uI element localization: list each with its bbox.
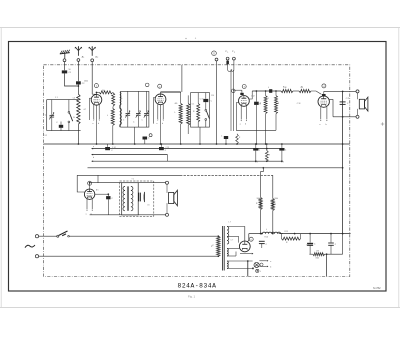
inductor L1 (antenna coil) xyxy=(73,85,80,145)
wire wavetrap top xyxy=(47,99,79,101)
trimmer capacitor C7 xyxy=(144,91,149,127)
inductor T2 rectifier filament xyxy=(227,249,228,257)
capacitor C10 xyxy=(340,102,349,105)
label G (circled) xyxy=(212,51,217,56)
speaker driver LS2 xyxy=(139,192,145,202)
wire V5 plate xyxy=(95,193,109,195)
capacitor C12 xyxy=(105,144,113,152)
grid cap V4 xyxy=(322,91,326,96)
svg-text:G: G xyxy=(213,53,215,55)
wire filter ground xyxy=(326,254,328,276)
svg-text:1: 1 xyxy=(83,57,84,59)
wire ext leads xyxy=(166,184,168,213)
svg-text:S 2: S 2 xyxy=(45,135,48,137)
wire R5-R6 link xyxy=(293,90,299,92)
loudspeaker LS3 xyxy=(169,190,178,206)
wire heater ground xyxy=(247,261,249,277)
tube V3 label xyxy=(242,85,246,89)
svg-text:L 7: L 7 xyxy=(229,222,231,224)
choke L6 xyxy=(268,87,272,93)
wire wavetrap bottom xyxy=(47,130,81,132)
resistor R10 (parallel) xyxy=(281,234,301,244)
trimmer capacitor C5 xyxy=(125,91,130,127)
wire bus 3 xyxy=(92,154,168,161)
wire V2 plate lead xyxy=(161,92,181,94)
inductor L3b xyxy=(120,97,123,127)
pin labels V2 xyxy=(156,123,163,125)
terminal P2 xyxy=(233,57,236,60)
svg-text:2: 2 xyxy=(97,57,98,59)
wire heater top xyxy=(227,260,253,262)
resistor R1 (grid leak) xyxy=(97,91,113,95)
svg-text:Fig. 1: Fig. 1 xyxy=(188,295,195,299)
detector section box xyxy=(191,93,210,128)
svg-text:b: b xyxy=(98,123,99,125)
wire grid line to terminal xyxy=(324,90,356,92)
inductor L3a xyxy=(120,92,121,105)
resistor R8 (feed) xyxy=(256,168,263,234)
arrow heater b xyxy=(259,266,271,269)
tube V4 label xyxy=(322,84,326,88)
wire V3 cathode return xyxy=(236,103,276,131)
wire earth lead xyxy=(64,62,66,71)
svg-text:L: L xyxy=(107,115,108,117)
antenna A1 xyxy=(75,46,83,56)
inductor L2b xyxy=(107,106,114,144)
svg-text:4-7: 4-7 xyxy=(84,109,87,111)
svg-text:1 W: 1 W xyxy=(316,251,319,253)
trimmer capacitor C6 xyxy=(133,91,141,127)
fuse plug xyxy=(226,61,229,65)
terminal A2 xyxy=(91,59,94,62)
terminal ext bottom xyxy=(166,213,169,216)
inductor L7 (choke) xyxy=(249,229,281,234)
capacitor C16 xyxy=(106,194,113,215)
svg-text:C 24: C 24 xyxy=(112,147,116,149)
svg-text:T 1: T 1 xyxy=(132,179,134,181)
resistor R9 (feed) xyxy=(271,175,276,233)
capacitor C15 xyxy=(279,144,287,161)
filament tap arrow xyxy=(240,253,253,255)
wire antenna A2 lead xyxy=(92,62,96,94)
capacitor C9 xyxy=(254,91,261,144)
wire rail detector-output xyxy=(252,90,281,92)
wire filter bottom xyxy=(309,253,342,255)
wire LS1 leads xyxy=(357,93,359,115)
capacitor C13 xyxy=(159,144,167,152)
switch S3 xyxy=(205,102,209,127)
wire V1 grid xyxy=(89,98,91,120)
capacitor C2 xyxy=(76,81,85,85)
svg-text:C 12: C 12 xyxy=(251,96,255,98)
bus labels xyxy=(93,146,94,159)
svg-text:824A-834A: 824A-834A xyxy=(178,282,217,289)
svg-text:L: L xyxy=(268,87,269,89)
capacitor C11 xyxy=(143,134,153,144)
tube V1 (frequency changer) xyxy=(91,95,102,106)
wire wavetrap left xyxy=(46,100,48,131)
loudspeaker LS1 xyxy=(359,97,368,111)
wire pickup G xyxy=(216,61,218,144)
svg-text:465: 465 xyxy=(175,103,178,105)
wire V5 pins xyxy=(86,199,93,216)
transformer T2 core xyxy=(223,226,225,271)
inductor L2a xyxy=(112,92,115,106)
wire B+ riser xyxy=(342,91,344,233)
transformer T1 box xyxy=(122,183,139,215)
terminal AC1 xyxy=(35,235,38,238)
wire AC neutral xyxy=(39,255,219,257)
wire bus 4 xyxy=(92,160,282,162)
label P1 xyxy=(225,51,228,54)
terminal AC2 xyxy=(35,255,38,258)
wire V3 pins xyxy=(240,106,247,126)
wire V5 top xyxy=(90,175,122,189)
svg-text:LS: LS xyxy=(148,205,150,207)
svg-text:0.1: 0.1 xyxy=(192,104,194,106)
wire C1 to coil xyxy=(65,73,79,86)
antenna A2 xyxy=(88,46,96,56)
label A1 xyxy=(82,55,85,59)
wire pickup P pair xyxy=(228,60,234,131)
svg-text:0.1: 0.1 xyxy=(267,98,269,100)
wire heater bottom xyxy=(227,267,253,269)
svg-text:2000: 2000 xyxy=(84,81,88,83)
svg-text:C 18: C 18 xyxy=(297,103,301,105)
svg-text:L: L xyxy=(260,271,261,273)
ground xyxy=(60,50,70,59)
arrow heater a xyxy=(259,260,271,263)
wire V3 plate xyxy=(249,91,252,99)
terminal P1 xyxy=(226,57,229,60)
wire HT tap xyxy=(227,236,239,242)
svg-text:L: L xyxy=(175,112,176,114)
svg-text:a: a xyxy=(319,124,320,126)
resistor R5 xyxy=(281,87,293,93)
wire B+ right xyxy=(301,233,351,235)
svg-text:1: 1 xyxy=(227,52,228,54)
svg-text:N-1762: N-1762 xyxy=(373,288,381,290)
inductor T1 secondary xyxy=(131,186,133,210)
resistor R3 xyxy=(260,91,267,144)
resistor R12 xyxy=(236,134,241,144)
svg-text:50: 50 xyxy=(69,69,71,71)
wire bus 2 xyxy=(92,148,282,150)
wire V2 pins xyxy=(157,104,164,144)
terminal LS1- xyxy=(356,115,359,118)
registration mark xyxy=(381,122,384,125)
svg-text:R 20: R 20 xyxy=(265,237,269,239)
wire osc box drop xyxy=(134,127,136,144)
svg-text:C 25: C 25 xyxy=(166,147,170,149)
svg-text:L: L xyxy=(266,229,267,231)
transformer T2 primary xyxy=(211,236,220,256)
label P2 xyxy=(232,51,235,54)
svg-text:a: a xyxy=(92,123,93,125)
value labels xyxy=(45,69,350,260)
switch S4 (mains) xyxy=(39,231,219,237)
capacitor C19 xyxy=(328,234,337,255)
label A2 xyxy=(95,55,98,59)
capacitor C8 xyxy=(203,93,212,103)
svg-text:b: b xyxy=(162,123,163,125)
capacitor C17 (reservoir) xyxy=(259,234,268,248)
wire V3 grid cap lead xyxy=(233,90,243,95)
capacitor C20 xyxy=(221,135,228,144)
inductor T2 HT winding xyxy=(227,227,229,245)
svg-text:a: a xyxy=(156,123,157,125)
resistor R4 xyxy=(275,91,280,130)
figure label xyxy=(188,295,195,299)
svg-text:8000: 8000 xyxy=(275,198,279,200)
tube V1 label xyxy=(94,84,98,88)
svg-text:C 7: C 7 xyxy=(231,240,234,242)
wire R6 to grid cap xyxy=(311,91,322,94)
switch S1 xyxy=(68,100,75,131)
resistor R2 xyxy=(193,93,200,128)
svg-text:0.5: 0.5 xyxy=(301,87,303,89)
svg-text:C 1: C 1 xyxy=(55,97,58,99)
wire detector box drop xyxy=(199,127,201,144)
svg-text:b: b xyxy=(326,124,327,126)
capacitor C18 (electrolytic) xyxy=(307,234,316,255)
svg-text:C 6: C 6 xyxy=(306,245,309,247)
wire riser to filter bottom xyxy=(342,234,344,255)
wire V4 plate xyxy=(329,100,333,117)
resistor R6 xyxy=(299,87,311,93)
svg-text:b: b xyxy=(93,157,94,159)
svg-text:R 21: R 21 xyxy=(285,231,289,233)
pilot lamp xyxy=(254,262,263,267)
paper speck xyxy=(186,38,196,39)
svg-text:C 17: C 17 xyxy=(200,99,204,101)
inductor T1 primary xyxy=(123,186,125,210)
wire bus 6 xyxy=(77,174,273,176)
capacitor C4 xyxy=(56,122,63,131)
pin labels V1 xyxy=(92,123,99,125)
wire V4 pins xyxy=(319,107,327,126)
inductor T2 heater winding xyxy=(227,261,228,269)
svg-text:L: L xyxy=(122,97,123,99)
wire mid riser xyxy=(77,175,84,192)
terminal E xyxy=(63,59,66,62)
inductor L4 (IFT1 primary) xyxy=(175,92,183,144)
tube V4 (output) xyxy=(318,96,329,107)
tube V6 label xyxy=(249,237,253,241)
svg-text:C 25: C 25 xyxy=(346,98,350,100)
svg-text:B 5: B 5 xyxy=(96,190,99,192)
sheet number xyxy=(373,288,381,290)
svg-text:a: a xyxy=(270,261,271,263)
tube V3 (detector/AF) xyxy=(239,96,250,107)
terminal LS1+ xyxy=(356,90,359,93)
speaker unit dashed box xyxy=(120,181,154,217)
resistor R11 xyxy=(313,251,325,256)
terminal ext top xyxy=(166,181,169,184)
svg-text:2: 2 xyxy=(234,52,235,54)
svg-text:3000: 3000 xyxy=(257,198,261,200)
wire rectifier filament xyxy=(227,249,239,257)
wire cathode to B+ xyxy=(247,234,249,243)
oscillator trimmer box xyxy=(121,91,149,127)
wire V1 pins xyxy=(93,105,99,145)
chassis number 824A-834A xyxy=(178,282,217,289)
inductor L5 (IFT1 secondary) xyxy=(187,95,192,134)
tube V5 xyxy=(84,189,94,199)
label circle osc switch xyxy=(145,83,149,87)
wire HT to anode xyxy=(227,227,245,242)
wire IFT1 feed xyxy=(181,65,183,92)
wire mid bottom line xyxy=(90,214,166,216)
capacitor C1 xyxy=(62,70,72,74)
wire speaker bottom line xyxy=(333,116,356,118)
terminal G xyxy=(215,58,218,61)
tube V6 (rectifier) xyxy=(239,241,250,252)
transformer T1 core xyxy=(127,186,128,210)
terminal A1 xyxy=(77,59,80,62)
chassis boundary (dash-dot box) xyxy=(44,65,350,277)
svg-text:1800: 1800 xyxy=(316,258,320,260)
svg-text:b: b xyxy=(245,124,246,126)
label circle pickup xyxy=(232,89,236,93)
dial lamp xyxy=(256,269,261,273)
tube V2 label xyxy=(158,84,162,88)
tube V5 label xyxy=(88,181,92,185)
wire bus AVC xyxy=(44,143,350,145)
svg-text:a: a xyxy=(240,124,241,126)
wire V2 grid return xyxy=(153,98,155,124)
wire bus 5 xyxy=(88,167,343,169)
variable capacitor C3 xyxy=(45,100,55,131)
tube V2 (IF amplifier) xyxy=(155,94,166,105)
wire choke link xyxy=(279,233,284,235)
AC symbol xyxy=(25,245,35,248)
wire antenna A1 lead xyxy=(77,61,79,81)
capacitor C14 xyxy=(253,144,261,161)
svg-text:50 k: 50 k xyxy=(102,90,105,92)
svg-text:a: a xyxy=(93,146,94,148)
svg-text:a: a xyxy=(86,214,87,216)
resistor R7 xyxy=(265,144,270,162)
wire mid top line xyxy=(138,182,165,184)
svg-text:b: b xyxy=(270,267,271,269)
